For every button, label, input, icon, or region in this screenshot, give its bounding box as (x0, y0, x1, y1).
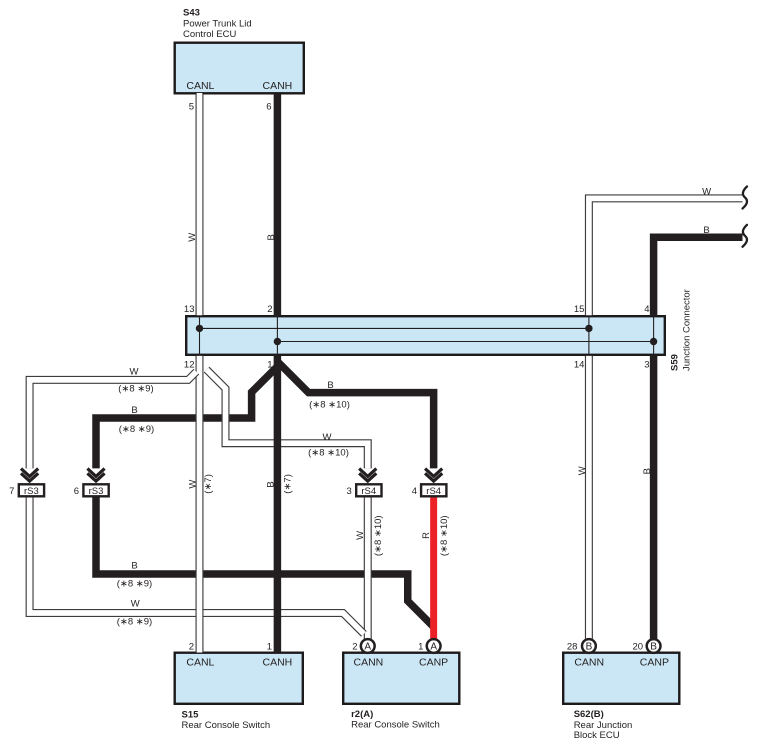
svg-text:12: 12 (184, 360, 195, 371)
svg-text:S59: S59 (669, 354, 680, 371)
svg-text:CANH: CANH (263, 656, 293, 668)
svg-text:W: W (130, 367, 139, 378)
label W (*8 *9) upper (118, 367, 153, 395)
junction internal line pin 15-14 (588, 317, 590, 353)
svg-text:1: 1 (267, 642, 272, 653)
wire W junction pin 12 branch to rS3 pin 7 (30, 372, 197, 469)
svg-text:(∗7): (∗7) (203, 474, 214, 494)
svg-text:2: 2 (189, 642, 194, 653)
terminal circle B pin 20 (647, 639, 661, 653)
wire label W (*8 *10) vertical (355, 515, 384, 556)
svg-text:4: 4 (412, 486, 417, 497)
svg-text:(∗7): (∗7) (282, 474, 293, 494)
junction node dot (585, 325, 592, 332)
off-page break symbol B (743, 225, 748, 247)
label S43 (183, 7, 252, 39)
svg-text:14: 14 (574, 360, 585, 371)
wire W junction pin 15 to off-page (589, 198, 743, 315)
wire label B (*7) (266, 474, 294, 494)
switch S15 box (175, 653, 303, 704)
connector box rS3 pin 7 (19, 484, 44, 496)
svg-text:(∗8 ∗9): (∗8 ∗9) (117, 579, 152, 590)
svg-text:CANP: CANP (640, 656, 669, 668)
connector box rS4 pin 4 (421, 484, 446, 496)
svg-text:CANN: CANN (354, 656, 384, 668)
svg-text:2: 2 (267, 304, 272, 315)
terminal circle B pin 28 (582, 639, 596, 653)
svg-text:rS3: rS3 (89, 486, 104, 497)
svg-text:(∗8 ∗9): (∗8 ∗9) (117, 617, 152, 628)
svg-text:rS4: rS4 (426, 486, 441, 497)
svg-text:B: B (131, 561, 137, 572)
svg-text:B: B (642, 468, 653, 474)
wire W junction pin 12 to S15 CANL (196, 356, 204, 653)
wire W rS4 pin 3 to r2(A) pin 2 (364, 496, 372, 641)
svg-text:W: W (323, 432, 332, 443)
svg-text:R: R (421, 532, 432, 539)
wire W junction pin 14 to S62 pin 28 (585, 356, 593, 641)
label W (*8 *9) lower (117, 599, 152, 628)
svg-text:CANL: CANL (186, 80, 214, 92)
svg-text:B: B (131, 405, 137, 416)
svg-text:W: W (702, 187, 711, 198)
terminal circle A pin 1 (427, 639, 441, 653)
label S62(B) (574, 709, 633, 741)
svg-text:W: W (188, 480, 199, 489)
svg-text:3: 3 (644, 360, 649, 371)
wire B junction pin 1 to S15 CANH (274, 355, 282, 653)
svg-text:Control ECU: Control ECU (183, 29, 236, 40)
svg-text:Junction Connector: Junction Connector (681, 289, 692, 371)
wire R rS4 pin 4 to r2(A) pin 1 (430, 496, 437, 641)
svg-text:5: 5 (189, 101, 194, 112)
svg-text:W: W (187, 233, 198, 242)
junction node dot (274, 338, 281, 345)
svg-text:13: 13 (184, 304, 195, 315)
svg-text:B: B (650, 642, 657, 653)
label W (*8 *10) (308, 432, 349, 458)
svg-text:Rear Console Switch: Rear Console Switch (182, 720, 271, 731)
svg-text:rS4: rS4 (361, 486, 376, 497)
svg-text:1: 1 (418, 642, 423, 653)
connector box rS3 pin 6 (83, 484, 108, 496)
connector arrow rS4 pin 4 (425, 469, 442, 482)
svg-text:(∗8 ∗9): (∗8 ∗9) (118, 384, 153, 395)
svg-text:CANL: CANL (186, 656, 214, 668)
svg-text:CANP: CANP (419, 656, 448, 668)
svg-text:B: B (266, 481, 277, 487)
wire B junction pin 4 to off-page (654, 237, 743, 316)
svg-text:6: 6 (266, 101, 271, 112)
svg-text:(∗8 ∗10): (∗8 ∗10) (308, 448, 349, 459)
svg-text:(∗8 ∗9): (∗8 ∗9) (119, 424, 154, 435)
svg-text:(∗8 ∗10): (∗8 ∗10) (309, 400, 350, 411)
svg-text:W: W (131, 599, 140, 610)
svg-text:Power Trunk Lid: Power Trunk Lid (183, 18, 252, 29)
svg-text:15: 15 (574, 304, 585, 315)
label S15 (182, 710, 271, 731)
svg-text:rS3: rS3 (24, 486, 39, 497)
svg-text:(∗8 ∗10): (∗8 ∗10) (373, 515, 384, 556)
wire B junction pin 3 to S62 pin 20 (650, 355, 658, 641)
wire label R (*8 *10) vertical (421, 515, 450, 556)
ECU S43 box (175, 43, 304, 94)
wire label W (*7) (188, 474, 215, 494)
junction bus CANH (277, 341, 653, 343)
wire B junction pin 1 branch to rS4 pin 4 (277, 361, 433, 468)
svg-text:CANN: CANN (574, 656, 604, 668)
junction connector S59 box (186, 316, 665, 355)
junction internal line pin 13-12 (199, 317, 201, 353)
label B (*8 *9) lower (117, 561, 152, 590)
svg-text:6: 6 (74, 486, 79, 497)
label r2(A) (351, 709, 440, 731)
svg-text:7: 7 (9, 486, 14, 497)
connector arrow rS3 pin 7 (21, 469, 38, 482)
connector box rS4 pin 3 (356, 484, 381, 496)
svg-text:S43: S43 (183, 7, 200, 18)
svg-text:S15: S15 (182, 710, 200, 721)
svg-text:W: W (577, 466, 588, 475)
wire W S43 CANL to junction pin 13 (196, 93, 204, 315)
svg-text:A: A (430, 642, 437, 653)
svg-text:W: W (355, 531, 366, 540)
ECU S62(B) box (563, 653, 679, 704)
terminal circle A pin 2 (361, 639, 375, 653)
svg-text:28: 28 (567, 642, 578, 653)
wire B rS3 pin 6 to r2(A) pin 1 (96, 497, 434, 627)
svg-text:B: B (703, 225, 709, 236)
svg-text:S62(B): S62(B) (574, 709, 604, 720)
svg-text:Block ECU: Block ECU (574, 730, 620, 741)
switch r2(A) box (343, 653, 459, 704)
wire B S43 CANH to junction pin 2 (274, 94, 282, 316)
svg-text:2: 2 (352, 642, 357, 653)
wire B junction pin 1 branch to rS3 pin 6 (96, 367, 277, 469)
svg-text:B: B (266, 234, 277, 240)
connector arrow rS4 pin 3 (359, 469, 376, 482)
svg-text:r2(A): r2(A) (351, 709, 373, 720)
svg-text:3: 3 (347, 486, 352, 497)
svg-text:CANH: CANH (263, 80, 293, 92)
svg-text:A: A (364, 642, 371, 653)
wire W junction pin 12 branch to rS4 pin 3 (207, 370, 368, 469)
svg-text:20: 20 (633, 642, 644, 653)
off-page break symbol W (743, 187, 748, 209)
svg-text:1: 1 (267, 360, 272, 371)
wire W rS3 pin 7 to r2(A) pin 2 (30, 497, 364, 634)
svg-text:4: 4 (644, 304, 649, 315)
junction internal line pin 2-1 (276, 317, 278, 353)
junction node dot (650, 338, 657, 345)
svg-text:(∗8 ∗10): (∗8 ∗10) (439, 515, 450, 556)
svg-text:B: B (586, 642, 593, 653)
svg-text:Rear Console Switch: Rear Console Switch (351, 719, 440, 730)
junction bus CANL (200, 327, 589, 329)
label B (*8 *10) (309, 380, 350, 411)
connector arrow rS3 pin 6 (87, 469, 104, 482)
junction internal line pin 4-3 (653, 317, 655, 353)
svg-text:B: B (327, 380, 333, 391)
label B (*8 *9) upper (119, 405, 154, 435)
junction node dot (196, 325, 203, 332)
